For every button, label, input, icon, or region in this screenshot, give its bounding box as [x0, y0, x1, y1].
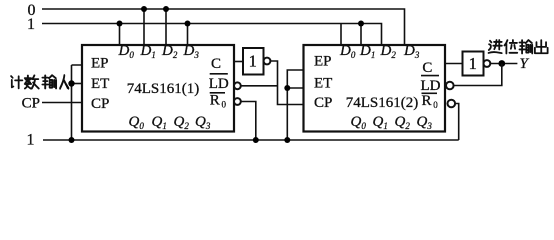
wire C1 to inverter	[234, 61, 243, 63]
junction R01-rail	[253, 137, 259, 143]
wire D0 U2	[340, 24, 342, 46]
wire EP2-ET2 tie to rail-1	[287, 70, 303, 140]
inverter G1	[243, 48, 270, 75]
svg-text:1: 1	[249, 52, 257, 71]
junction bottomrail-EP1	[69, 137, 75, 143]
junction rail1-D0U1	[117, 21, 123, 27]
计	[11, 76, 22, 88]
junction rail0-D2U1	[163, 6, 169, 12]
pin LD2 bubble	[446, 82, 454, 90]
出	[535, 40, 548, 53]
svg-text:74LS161(2): 74LS161(2)	[346, 95, 419, 111]
svg-text:0: 0	[222, 100, 227, 110]
进	[489, 40, 502, 53]
wire G2 out to Y	[490, 63, 517, 65]
junction EP2tie-rail	[284, 137, 290, 143]
inverter G2	[463, 52, 491, 76]
wire R01 to rail-1	[241, 102, 256, 141]
wire bottom rail-1	[43, 139, 459, 141]
svg-text:R: R	[422, 93, 432, 109]
svg-text:ET: ET	[314, 76, 332, 92]
counter U1 74LS161(1)	[82, 43, 234, 132]
wire LD1	[241, 85, 278, 87]
wire count-input to ET1	[69, 83, 83, 85]
junction rail0-D1U1	[141, 6, 147, 12]
svg-text:CP: CP	[91, 96, 109, 112]
svg-text:74LS161(1): 74LS161(1)	[127, 81, 200, 97]
counter U2 74LS161(2)	[304, 43, 446, 132]
svg-text:1: 1	[469, 54, 477, 73]
svg-text:1: 1	[27, 132, 35, 149]
svg-text:EP: EP	[314, 54, 332, 70]
junction rail1-D1U2	[358, 21, 364, 27]
label count-input 计数输入	[11, 75, 69, 88]
wire EP1 tie	[72, 65, 83, 140]
wire rail-0	[42, 9, 405, 45]
svg-text:LD: LD	[209, 76, 229, 92]
wire rail-1	[42, 24, 382, 46]
数	[25, 75, 39, 88]
wire Y-feedback to LD2	[454, 64, 502, 86]
junction Y-feedback	[498, 60, 505, 67]
label carry-output 进位输出	[489, 40, 548, 53]
wire R02 to rail-1	[455, 104, 459, 141]
入	[60, 76, 69, 89]
wire G1 out to CP2	[270, 61, 303, 105]
junction ET2	[284, 85, 290, 91]
svg-text:ET: ET	[91, 76, 109, 92]
svg-text:R: R	[210, 93, 220, 109]
pin LD1 bubble	[234, 82, 241, 89]
pin R01 bubble	[234, 98, 241, 105]
svg-text:EP: EP	[91, 56, 109, 72]
输	[519, 40, 532, 53]
svg-text:CP: CP	[22, 96, 40, 112]
wire C2 to inverter	[445, 63, 463, 65]
svg-text:CP: CP	[314, 95, 332, 111]
svg-text:C: C	[211, 56, 221, 72]
wire CP to CP1	[42, 102, 82, 104]
wire D2 U1	[165, 9, 167, 45]
pin R02 bubble	[448, 100, 456, 108]
svg-text:C: C	[422, 60, 432, 76]
wire D0 U1	[119, 24, 121, 46]
svg-text:LD: LD	[421, 78, 441, 94]
wire D3 U1	[187, 24, 189, 46]
junction rail1-D3U1	[185, 21, 191, 27]
输	[42, 75, 56, 88]
wire D1 U2	[360, 24, 362, 46]
svg-text:1: 1	[27, 16, 35, 33]
wire D1 U1	[143, 9, 145, 45]
junction ET1	[68, 80, 74, 86]
svg-text:0: 0	[433, 100, 438, 110]
位	[505, 40, 518, 53]
